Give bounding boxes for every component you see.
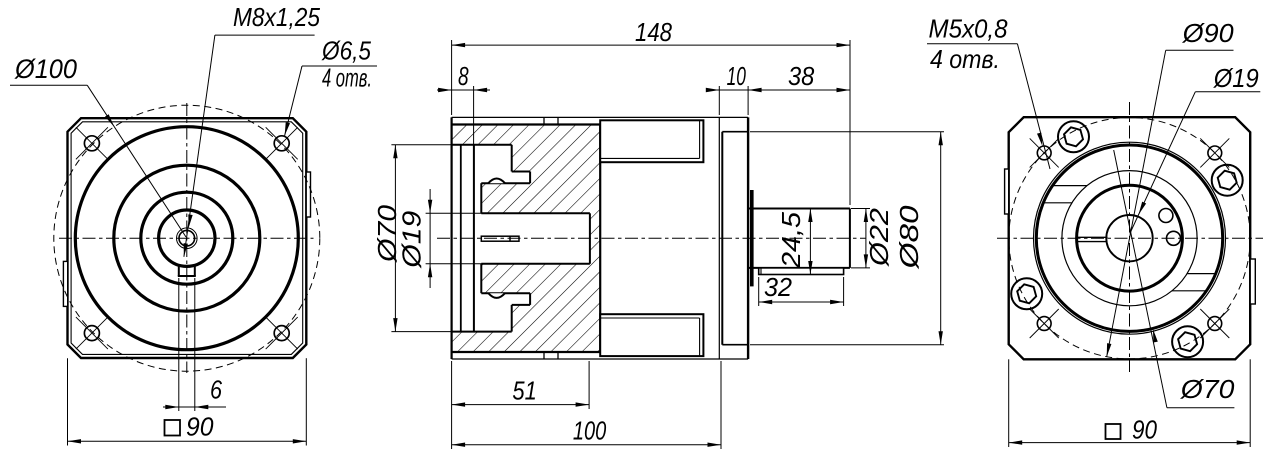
right edge tab: [306, 172, 310, 217]
housing top edge: [452, 123, 601, 125]
output flange left face: [718, 117, 720, 359]
dimension 6 (keyway width): [178, 278, 180, 411]
hub bottom face: [481, 292, 530, 294]
svg-text:10: 10: [727, 61, 747, 91]
O80 disc bottom edge: [722, 344, 748, 346]
hole centermark X: [1200, 309, 1229, 338]
leader O19 (right): [1195, 91, 1260, 93]
section centerline: [437, 237, 866, 239]
hole centermark X: [76, 317, 108, 349]
leader O90: [1166, 49, 1234, 51]
hole centermark X: [76, 127, 108, 159]
plug divider bottom b: [557, 352, 559, 359]
inner ring thin circle: [1062, 171, 1197, 306]
bearing housing circle O70 thick: [1036, 145, 1222, 331]
housing bottom edge: [452, 351, 601, 353]
svg-text:100: 100: [573, 416, 607, 446]
centerline vertical (right): [1129, 102, 1131, 372]
dimension 8: [473, 86, 475, 144]
bore end face: [589, 213, 591, 263]
hub top face: [481, 182, 530, 184]
keyway slot in bore: [178, 265, 180, 276]
svg-text:Ø90: Ø90: [1182, 18, 1235, 48]
chamber step horizontals: [512, 171, 530, 173]
mounting hole O6.5 #2: [274, 136, 289, 151]
mounting hole O6.5 #1: [84, 136, 99, 151]
leader M5x0,8: [927, 43, 1017, 45]
dimension 148: [451, 40, 453, 115]
centerline horizontal (right): [997, 237, 1263, 239]
plug divider bottom a: [543, 352, 545, 359]
svg-text:M8x1,25: M8x1,25: [233, 2, 320, 32]
recess bottom wall: [473, 145, 475, 332]
chamber step verticals: [511, 145, 513, 172]
bolt circle O90 dashed: [1009, 118, 1250, 359]
svg-text:24,5: 24,5: [776, 211, 806, 269]
dimension 51: [451, 361, 453, 409]
socket screw 3: [1011, 278, 1042, 309]
dowel hole 2: [1167, 231, 1181, 245]
left edge tab: [63, 261, 67, 306]
dimension square 90 (right): [1008, 359, 1010, 447]
pilot circle (outer): [75, 127, 298, 350]
right edge tab (right view): [1250, 259, 1255, 304]
bore O19 bottom: [481, 263, 590, 265]
output shaft O22 top: [748, 208, 850, 210]
chamber step inner verticals: [529, 172, 531, 184]
dimension O19 (bore): [426, 212, 482, 214]
M8 tap hole circle: [179, 230, 195, 246]
hole centermark X: [266, 317, 298, 349]
flange silhouette bottom: [452, 358, 748, 360]
leader O6,5: [302, 65, 377, 67]
left edge tab (right view): [1005, 169, 1009, 214]
svg-text:Ø100: Ø100: [14, 54, 77, 84]
bearing housing circle O70 outer thin: [1034, 142, 1226, 334]
output bore circle: [1106, 215, 1152, 261]
mounting hole O6.5 #3: [84, 326, 99, 341]
slot lower-right: [1187, 273, 1216, 275]
slot upper-left: [1053, 185, 1087, 187]
recess step line: [460, 145, 462, 332]
pilot boss (solid): [750, 190, 754, 286]
bottom ear: [600, 314, 703, 356]
dimension 32 (key): [758, 277, 760, 306]
svg-text:90: 90: [186, 412, 214, 442]
left view: input-side square flange, octagon outline: [68, 118, 307, 358]
recess O70 bottom edge: [452, 331, 512, 333]
recess O70 top edge: [452, 144, 512, 146]
svg-text:6: 6: [210, 375, 222, 405]
M8 thread circle (thin): [177, 228, 198, 249]
output shaft O22 bottom: [748, 267, 850, 269]
svg-text:Ø70: Ø70: [1180, 374, 1235, 404]
svg-text:Ø6,5: Ø6,5: [321, 36, 371, 66]
hole centermark X: [1200, 138, 1229, 167]
dimension square 90 (left): [67, 358, 69, 445]
M5 hole #4: [1208, 317, 1222, 331]
leader O70 (right): [1167, 407, 1235, 409]
housing right edge: [599, 125, 601, 353]
flange silhouette top: [452, 116, 748, 118]
clamp screw bump top: [488, 179, 505, 184]
hole centermark X: [1030, 138, 1059, 167]
svg-text:Ø22: Ø22: [864, 207, 894, 267]
dimension 10: [718, 86, 720, 115]
inner chamfer line octagon: [71, 122, 303, 355]
bore O19 top: [481, 212, 590, 214]
hub left face: [480, 183, 482, 213]
dimension 24,5: [809, 209, 811, 275]
leader M8x1,25: [215, 34, 315, 36]
dimension O22: [851, 208, 870, 210]
M5 hole #3: [1037, 317, 1051, 331]
svg-text:4 отв.: 4 отв.: [322, 63, 372, 93]
output flange right face: [747, 117, 749, 359]
input bore circle O19: [159, 210, 215, 266]
svg-text:Ø19: Ø19: [1213, 63, 1259, 93]
socket screw 2: [1212, 165, 1243, 196]
centerline vertical: [186, 103, 188, 373]
M5 hole #2: [1208, 146, 1222, 160]
svg-text:51: 51: [512, 376, 536, 406]
hole centermark X: [266, 127, 298, 159]
shaft end face: [849, 209, 851, 268]
svg-text:32: 32: [764, 272, 793, 302]
svg-text:M5x0,8: M5x0,8: [929, 14, 1008, 44]
clamp slit: [481, 236, 519, 241]
plug divider top b: [557, 117, 559, 124]
dimension 38: [748, 89, 850, 91]
svg-text:4 отв.: 4 отв.: [930, 44, 1000, 74]
square symbol: [165, 420, 181, 436]
svg-text:148: 148: [635, 17, 672, 47]
housing outline left face: [451, 117, 453, 359]
centerline horizontal: [59, 237, 314, 239]
M5 hole #1: [1037, 146, 1051, 160]
clamp slit (right view): [1077, 236, 1108, 238]
O80 disc top edge: [722, 131, 748, 133]
plug divider top a: [543, 117, 545, 124]
hole centermark X: [1030, 309, 1059, 338]
dowel hole 1: [1159, 209, 1173, 223]
shaft key: [759, 268, 844, 275]
socket screw 1: [1058, 121, 1089, 152]
socket screw 4: [1172, 326, 1203, 357]
clamp screw bump bottom: [488, 293, 505, 298]
top ear (ring gear housing): [600, 120, 703, 162]
circle ring 2: [114, 165, 260, 311]
mounting hole O6.5 #4: [274, 326, 289, 341]
svg-text:Ø19: Ø19: [397, 211, 427, 269]
svg-text:90: 90: [1132, 415, 1157, 445]
right view: output-side square flange: [1009, 117, 1250, 359]
svg-text:Ø80: Ø80: [894, 205, 924, 270]
dimension O70 (recess): [391, 144, 453, 146]
dimension O80: [750, 131, 944, 133]
section view: gearbox housing hatch: [452, 125, 601, 353]
bolt circle O100 dashed: [54, 105, 320, 371]
svg-text:38: 38: [788, 61, 815, 91]
svg-text:8: 8: [458, 61, 469, 91]
circle ring 3: [141, 192, 233, 284]
leader O100: [10, 84, 87, 86]
dimension 100: [720, 361, 722, 449]
output flange pilot line: [721, 132, 723, 345]
inner ring thick circle: [1077, 185, 1183, 291]
